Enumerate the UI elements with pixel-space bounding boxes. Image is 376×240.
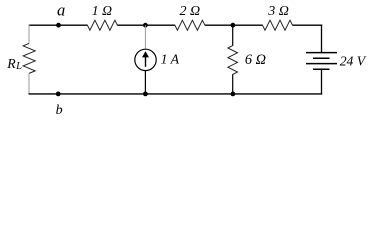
battery plate short upper [313, 57, 330, 59]
battery plate long lower [306, 63, 337, 65]
svg-text:L: L [15, 61, 22, 72]
wire current source lower stub [144, 71, 146, 95]
svg-text:1 Ω: 1 Ω [92, 3, 112, 18]
resistor R1 1ohm [87, 20, 117, 30]
wire right rail upper stub [321, 25, 323, 53]
svg-text:1 A: 1 A [161, 52, 180, 67]
resistor R2 2ohm [175, 20, 205, 30]
node a [56, 23, 61, 28]
current source arrow [145, 57, 147, 67]
battery plate short bottom [313, 68, 330, 70]
resistor R3 6ohm [228, 46, 238, 75]
node 6ohm bottom [231, 92, 236, 97]
node junction current source top [143, 23, 148, 28]
wire top rail segment 2 [117, 24, 175, 26]
wire current source upper stub (grey) [144, 25, 146, 49]
wire top rail segment right [292, 24, 322, 26]
node b [56, 92, 61, 97]
node current source bottom [143, 92, 148, 97]
wire left rail lower (grey) [28, 73, 30, 94]
svg-text:6 Ω: 6 Ω [245, 52, 266, 68]
wire 6ohm upper stub [232, 25, 234, 46]
svg-text:2 Ω: 2 Ω [180, 4, 201, 19]
wire left rail upper (grey) [28, 25, 30, 44]
wire top rail segment left (corner to R 1ohm) [29, 24, 88, 26]
wire 6ohm lower stub [232, 74, 234, 94]
svg-text:3 Ω: 3 Ω [267, 4, 289, 19]
wire top rail segment 3 [205, 24, 263, 26]
resistor RL [23, 43, 35, 73]
svg-text:R: R [6, 56, 16, 71]
svg-text:24 V: 24 V [340, 53, 367, 68]
resistor R4 3ohm [263, 20, 293, 30]
svg-text:b: b [56, 103, 63, 118]
node junction 6ohm top [231, 23, 236, 28]
wire bottom rail [29, 93, 323, 95]
wire right rail lower stub [321, 69, 323, 94]
current source I1 circle [135, 49, 156, 70]
svg-text:a: a [57, 1, 65, 20]
battery V1 plate long top [306, 52, 337, 54]
